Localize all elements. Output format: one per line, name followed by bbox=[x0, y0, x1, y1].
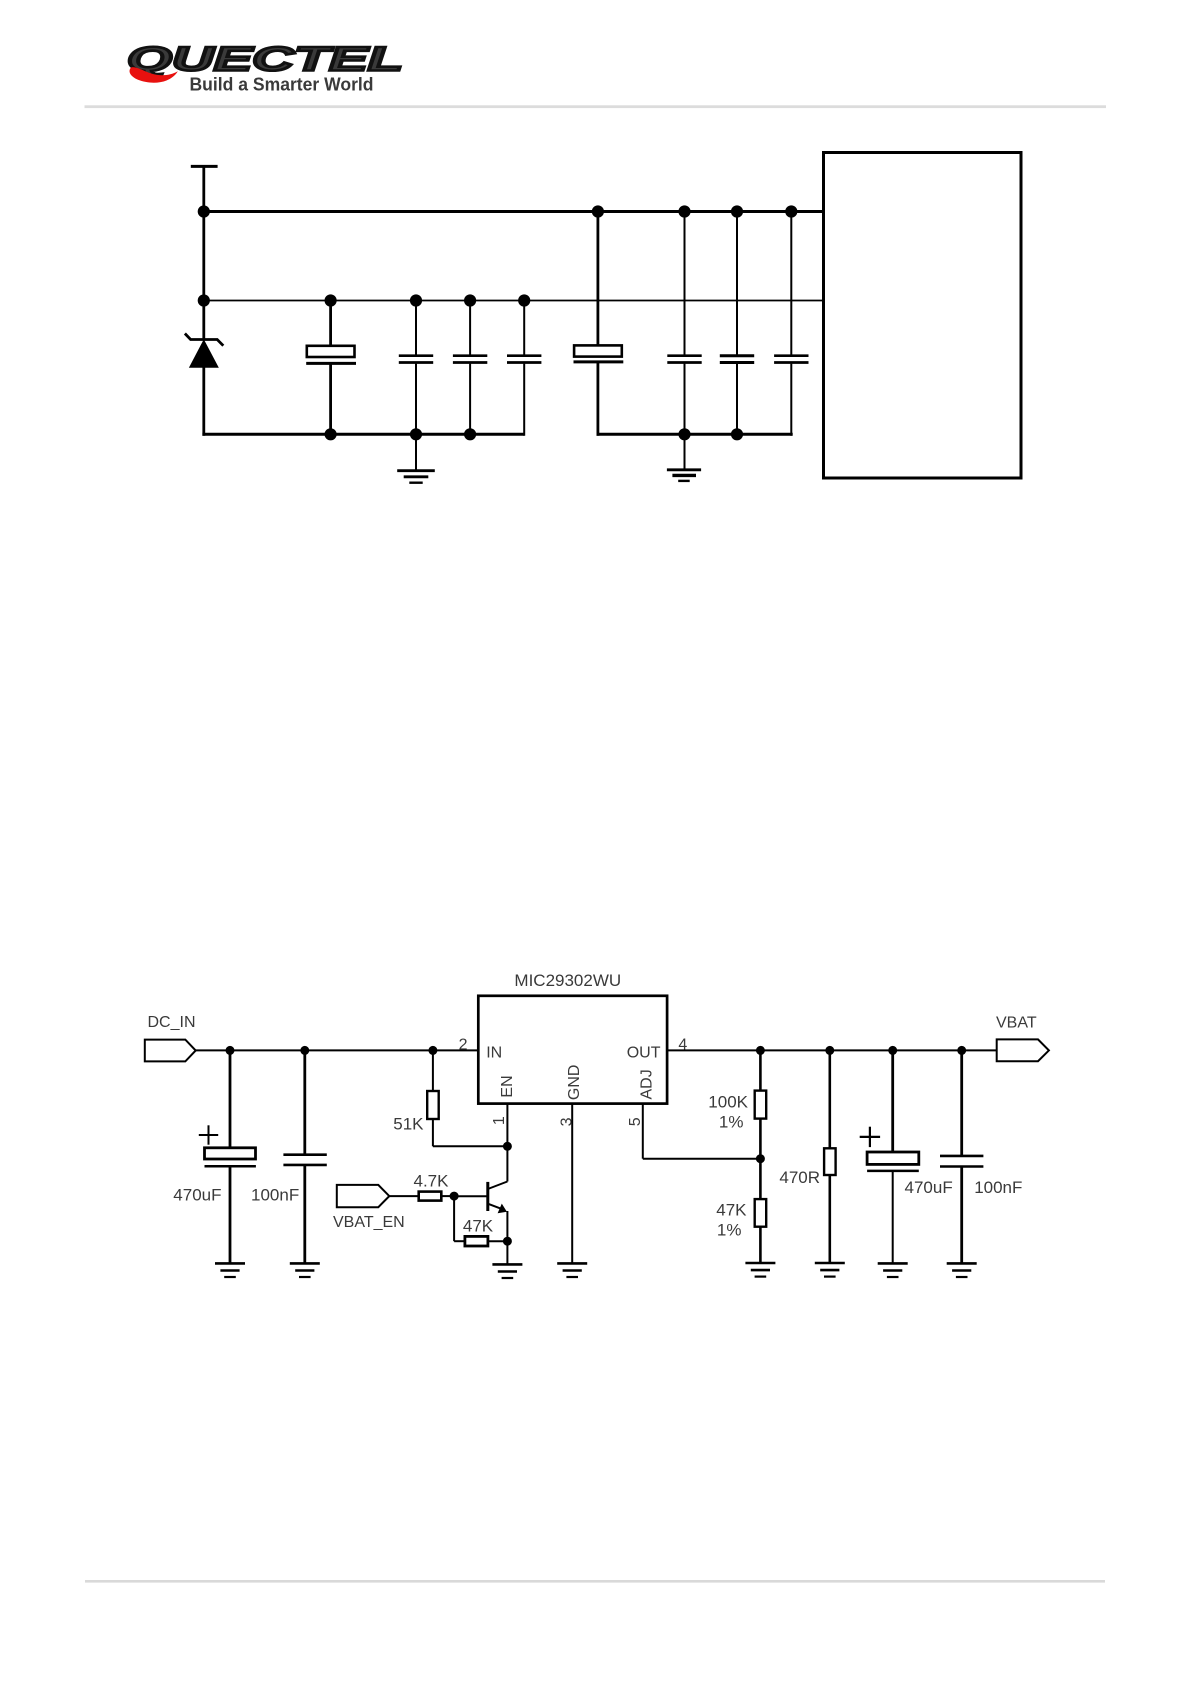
node ADJ divider junction bbox=[756, 1155, 764, 1163]
node rail2 c4 bbox=[519, 295, 530, 306]
capacitor C8 stem bottom bbox=[790, 364, 792, 436]
svg-text:470uF: 470uF bbox=[905, 1178, 953, 1197]
capacitor C1 lower plate bbox=[306, 362, 356, 365]
capacitor C9 lower plate bbox=[205, 1165, 256, 1168]
SECTION: header logo bbox=[85, 41, 1107, 1583]
capacitor C12 100nF stem top bbox=[960, 1050, 963, 1155]
node rail2 c1 bbox=[325, 295, 336, 306]
power bar symbol bbox=[191, 165, 218, 168]
svg-text:51K: 51K bbox=[393, 1115, 424, 1134]
module block bbox=[824, 153, 1022, 479]
wire ADJ pin stub bbox=[642, 1104, 644, 1159]
capacitor C5 body bbox=[574, 345, 622, 356]
capacitor C12 stem bottom bbox=[960, 1167, 963, 1263]
port flag DC_IN bbox=[145, 1040, 196, 1062]
resistor R5 stem bottom bbox=[759, 1227, 762, 1263]
wire R1 to EN node bbox=[433, 1145, 508, 1147]
resistor R4 100K stem top bbox=[759, 1050, 762, 1090]
wire ADJ to divider node bbox=[643, 1158, 761, 1160]
node rail2 c2 bbox=[410, 295, 421, 306]
resistor R6 470R stem top bbox=[828, 1050, 831, 1148]
capacitor C9 body bbox=[205, 1148, 256, 1159]
capacitor C7 stem top bbox=[736, 212, 738, 355]
wire rail2 to diode bbox=[202, 301, 205, 340]
resistor R6 stem bottom bbox=[828, 1175, 831, 1263]
svg-text:1%: 1% bbox=[719, 1112, 744, 1131]
wire VBAT_EN to R2 bbox=[389, 1195, 418, 1197]
node R4 top bbox=[756, 1046, 764, 1054]
transistor Q1 base bar bbox=[486, 1182, 489, 1211]
node C7 bottom bbox=[731, 429, 742, 440]
ground C11 bbox=[878, 1263, 908, 1277]
svg-text:OUT: OUT bbox=[627, 1044, 661, 1061]
resistor R5 body bbox=[755, 1199, 767, 1227]
wire OUT pin to VBAT bbox=[667, 1049, 997, 1051]
svg-text:IN: IN bbox=[486, 1044, 502, 1061]
node C11 top bbox=[889, 1046, 897, 1054]
ground symbol group1 bbox=[397, 434, 435, 482]
capacitor C2 plates bbox=[399, 356, 433, 363]
port flag VBAT bbox=[997, 1039, 1049, 1061]
capacitor C8 stem top bbox=[790, 212, 792, 355]
svg-text:2: 2 bbox=[459, 1037, 468, 1054]
capacitor C11 stem bottom bbox=[892, 1171, 894, 1264]
node top rail c8 bbox=[786, 206, 797, 217]
capacitor C7 plates bbox=[720, 356, 754, 363]
wire base node down bbox=[453, 1196, 455, 1241]
resistor R4 body bbox=[755, 1091, 767, 1119]
node C12 top bbox=[958, 1046, 966, 1054]
resistor R4 stem bottom bbox=[759, 1119, 762, 1159]
ground Q1 emitter bbox=[492, 1264, 522, 1278]
SECTION: lower circuit bbox=[145, 971, 1049, 1278]
node top rail c6 bbox=[679, 206, 690, 217]
svg-text:GND: GND bbox=[566, 1065, 583, 1101]
svg-text:EN: EN bbox=[499, 1075, 516, 1097]
capacitor C9 470uF stem top bbox=[229, 1050, 232, 1148]
wire EN node to Q1 collector bbox=[506, 1146, 508, 1181]
wire emitter node to ground bbox=[506, 1241, 508, 1264]
resistor R5 47K stem top bbox=[759, 1159, 762, 1199]
node C1 bottom bbox=[325, 429, 336, 440]
resistor R1 51K stem top bbox=[432, 1050, 434, 1091]
transistor Q1 collector diagonal bbox=[488, 1182, 508, 1190]
capacitor C1 stem bottom bbox=[329, 363, 332, 434]
node R6 top bbox=[826, 1046, 834, 1054]
node rail2 c3 bbox=[465, 295, 476, 306]
op-amp U1 MIC29302WU body bbox=[478, 996, 667, 1104]
transistor Q1 emitter diagonal bbox=[488, 1204, 504, 1210]
node top rail left bbox=[198, 206, 209, 217]
capacitor C6 stem bottom bbox=[684, 364, 686, 435]
capacitor C9 stem bottom bbox=[229, 1166, 232, 1263]
capacitor C4 plates bbox=[507, 356, 541, 363]
resistor R1 stem bottom bbox=[432, 1119, 434, 1146]
ground C9 bbox=[215, 1263, 245, 1277]
capacitor C6 plates bbox=[667, 356, 701, 363]
svg-text:470R: 470R bbox=[779, 1168, 820, 1187]
capacitor C5 lower plate bbox=[574, 360, 624, 363]
ground U1 GND pin bbox=[557, 1263, 587, 1277]
svg-text:MIC29302WU: MIC29302WU bbox=[514, 971, 621, 990]
svg-text:100nF: 100nF bbox=[251, 1186, 299, 1205]
node C10 top bbox=[301, 1046, 309, 1054]
svg-text:100K: 100K bbox=[708, 1093, 748, 1112]
capacitor C12 plates bbox=[940, 1156, 983, 1167]
node rail2 left bbox=[198, 295, 209, 306]
node base junction bbox=[450, 1192, 458, 1200]
wire GND pin stub bbox=[571, 1104, 573, 1264]
svg-text:4.7K: 4.7K bbox=[414, 1171, 450, 1190]
capacitor C2 stem bottom bbox=[415, 364, 417, 435]
svg-text:5: 5 bbox=[627, 1117, 644, 1126]
capacitor C1 body bbox=[307, 346, 355, 357]
svg-text:1: 1 bbox=[491, 1116, 508, 1125]
svg-text:100nF: 100nF bbox=[974, 1178, 1022, 1197]
svg-text:VBAT_EN: VBAT_EN bbox=[333, 1214, 405, 1231]
capacitor C1 (polarized) stem top bbox=[329, 301, 332, 347]
ground R5 bbox=[745, 1263, 775, 1277]
transistor Q1 emitter arrowhead bbox=[498, 1204, 507, 1214]
svg-text:47K: 47K bbox=[463, 1217, 494, 1236]
header rule bbox=[85, 105, 1107, 108]
node C3 bottom bbox=[465, 429, 476, 440]
wire bottom rail group1 bbox=[202, 433, 524, 436]
TVS diode D1 anode triangle bbox=[190, 340, 218, 367]
capacitor C3 plates bbox=[453, 356, 487, 363]
capacitor C6 stem top bbox=[684, 212, 686, 355]
node top rail c5 bbox=[592, 206, 603, 217]
capacitor C11 470uF stem top bbox=[891, 1050, 894, 1152]
capacitor C10 plates bbox=[283, 1155, 326, 1165]
svg-text:470uF: 470uF bbox=[173, 1186, 221, 1205]
node emitter junction bbox=[503, 1237, 511, 1245]
SECTION: top circuit bbox=[185, 153, 1021, 483]
node EN junction bbox=[503, 1142, 511, 1150]
svg-text:DC_IN: DC_IN bbox=[148, 1014, 196, 1031]
capacitor C7 stem bottom bbox=[736, 364, 738, 435]
resistor R3 47K body bbox=[465, 1236, 488, 1246]
node C9 top bbox=[226, 1046, 234, 1054]
Quectel red swoosh bbox=[130, 67, 178, 83]
capacitor C8 plates bbox=[774, 356, 808, 363]
capacitor C10 100nF stem top bbox=[303, 1050, 306, 1154]
wire Q1 emitter down bbox=[506, 1211, 508, 1241]
ground C12 bbox=[947, 1263, 977, 1277]
svg-text:1%: 1% bbox=[717, 1220, 742, 1239]
capacitor C4 stem bottom bbox=[523, 364, 525, 436]
ground R6 bbox=[815, 1263, 845, 1277]
footer rule bbox=[85, 1580, 1105, 1583]
capacitor C3 stem bottom bbox=[469, 364, 471, 435]
wire R3 to emitter node bbox=[488, 1240, 508, 1242]
node R51K top bbox=[429, 1046, 437, 1054]
TVS diode D1 cathode bar bbox=[185, 334, 223, 346]
node C2 bottom bbox=[410, 429, 421, 440]
svg-text:ADJ: ADJ bbox=[638, 1069, 655, 1099]
wire VBAT top rail bbox=[204, 210, 824, 213]
wire diode to bottom rail1 bbox=[202, 366, 205, 436]
wire second rail bbox=[204, 300, 824, 302]
capacitor C4 stem top bbox=[523, 301, 525, 355]
node top rail c7 bbox=[731, 206, 742, 217]
capacitor C5 (polarized) stem top bbox=[597, 212, 600, 347]
capacitor C10 stem bottom bbox=[303, 1166, 306, 1264]
wire left drop rail1 to rail2 bbox=[202, 212, 205, 303]
capacitor C5 stem bottom bbox=[597, 362, 600, 436]
capacitor C2 stem top bbox=[415, 301, 417, 355]
capacitor C11 body bbox=[867, 1152, 919, 1164]
svg-text:47K: 47K bbox=[716, 1201, 747, 1220]
capacitor C9 plus sign bbox=[199, 1125, 218, 1144]
wire EN pin stub bbox=[506, 1104, 508, 1147]
resistor R2 4.7K body bbox=[419, 1192, 442, 1201]
capacitor C11 lower plate bbox=[867, 1170, 919, 1173]
capacitor C3 stem top bbox=[469, 301, 471, 355]
node C6 bottom bbox=[679, 429, 690, 440]
ground symbol group2 bbox=[667, 434, 701, 481]
svg-text:VBAT: VBAT bbox=[996, 1015, 1037, 1032]
wire bottom rail group2 bbox=[597, 433, 793, 436]
transistor Q1 base wire bbox=[454, 1195, 488, 1197]
capacitor C11 plus sign bbox=[860, 1127, 880, 1147]
port flag VBAT_EN bbox=[337, 1185, 390, 1207]
ground C10 bbox=[290, 1263, 320, 1277]
resistor R1 body bbox=[427, 1091, 439, 1119]
wire R2 to base node bbox=[441, 1195, 454, 1197]
wire power bar to top rail bbox=[202, 166, 205, 213]
wire DC_IN to IC IN pin bbox=[196, 1049, 479, 1051]
resistor R6 body bbox=[824, 1148, 836, 1175]
wire base node to R3 bbox=[454, 1240, 465, 1242]
svg-text:Build a Smarter World: Build a Smarter World bbox=[190, 74, 374, 95]
